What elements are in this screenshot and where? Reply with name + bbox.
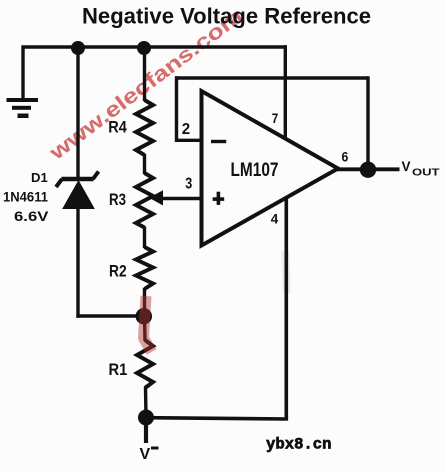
svg-text:R3: R3 [109, 190, 126, 209]
node: junction dot at zener branch / top rail [71, 41, 85, 55]
resistor R2 [136, 247, 153, 289]
svg-text:LM107: LM107 [231, 160, 279, 181]
wire: wiper to op-amp pin 3 [161, 197, 202, 200]
wire: segment between R2 and junction [143, 288, 146, 316]
wire: stub to V- terminal [144, 418, 148, 444]
node: junction dot R2/R1 [136, 308, 152, 324]
wire: ground stem [21, 46, 24, 100]
resistor R1 [137, 340, 153, 388]
wire: output from pin 6 [336, 167, 400, 171]
svg-text:6: 6 [342, 149, 349, 165]
svg-text:D1: D1 [31, 170, 48, 185]
wire: pin 4 vertical [284, 198, 288, 420]
ground [7, 98, 39, 118]
wire: feedback top horizontal [175, 76, 368, 79]
wire: zener branch lower (D1 anode down to bottom link) [76, 207, 79, 318]
svg-text:4: 4 [271, 211, 279, 227]
resistor R4 [136, 100, 153, 155]
wire: segment between R4 and R3 [143, 154, 146, 174]
svg-text:R4: R4 [108, 118, 127, 137]
diode D1 (zener 1N4611) [56, 172, 99, 209]
wire: segment between R1 and bottom node [144, 387, 148, 418]
wire: resistor chain top segment [143, 48, 146, 101]
wire: segment between R3 and R2 [143, 227, 146, 249]
svg-text:R2: R2 [109, 261, 127, 280]
resistor R3 (potentiometer) [136, 173, 153, 228]
node: output junction dot [360, 162, 376, 178]
op-amp U1 LM107 [202, 91, 339, 246]
wire: zener branch upper (from top rail to D1 cathode) [76, 48, 79, 178]
wire: pin 7 vertical [284, 45, 287, 139]
svg-text:V: V [402, 159, 411, 174]
svg-text:7: 7 [272, 110, 279, 126]
wire: bottom rail from V- node to pin 4 [146, 418, 288, 419]
wire: segment between junction and R1 [143, 316, 147, 341]
wire: top rail from ground to pin 7 corner [22, 45, 288, 48]
svg-text:ybx8.cn: ybx8.cn [266, 436, 332, 454]
wire: horizontal link from zener branch to R2/R1 junction [76, 314, 144, 317]
watermark www.elecfans.com (main diagonal) [45, 5, 248, 166]
inverting input minus sign [211, 140, 226, 143]
svg-text:3: 3 [185, 175, 192, 192]
svg-text:R1: R1 [109, 360, 128, 379]
svg-text:1N4611: 1N4611 [3, 189, 48, 205]
svg-text:V: V [140, 446, 151, 463]
wire: feedback right vertical down to output [366, 76, 369, 169]
wiper arrow of R3 [149, 190, 163, 205]
wire: feedback left vertical [175, 76, 178, 142]
non-inverting input plus sign [213, 192, 225, 205]
svg-text:Negative Voltage Reference: Negative Voltage Reference [82, 4, 371, 29]
wire: pin 2 stub [177, 139, 203, 142]
watermark fragment (red tint over R2/R1 junction) [144, 296, 152, 352]
watermark fragment (faint tint on pin 4 line) [285, 251, 287, 293]
svg-text:6.6V: 6.6V [14, 208, 49, 224]
svg-text:2: 2 [182, 121, 190, 138]
node: junction dot at resistor chain / top rail [137, 41, 151, 55]
svg-text:OUT: OUT [412, 168, 440, 179]
node: bottom junction dot (V-) [138, 410, 154, 426]
